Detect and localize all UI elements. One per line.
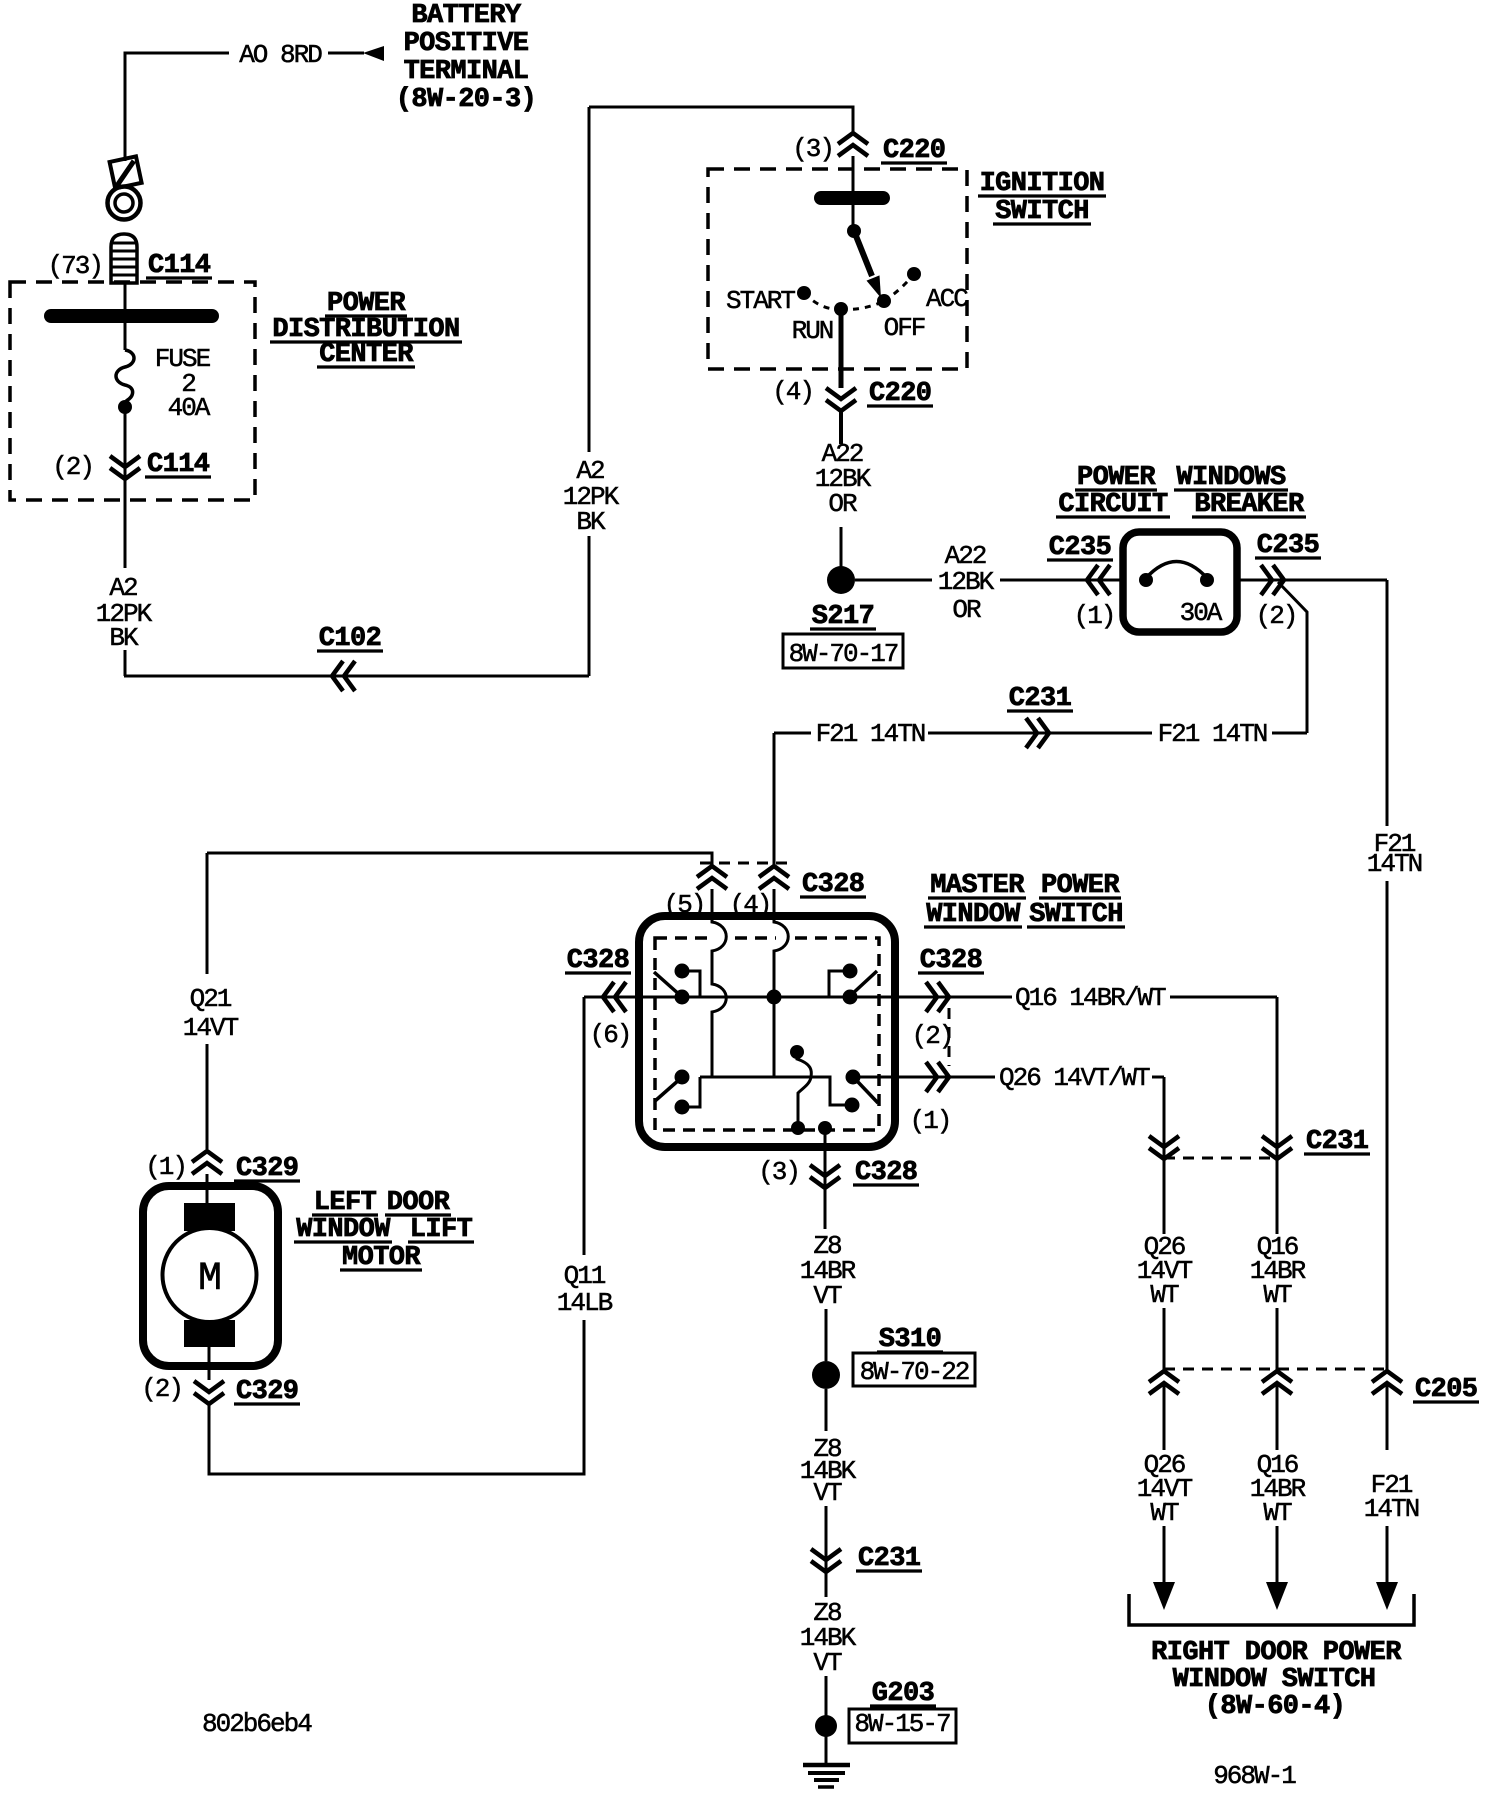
svg-text:F21 14TN: F21 14TN — [1158, 719, 1267, 749]
wire Q11 14LB return run — [209, 1320, 584, 1474]
circuit breaker 30A box — [1123, 532, 1237, 632]
wire breaker output F21 — [1237, 579, 1387, 582]
svg-text:(4): (4) — [772, 377, 813, 407]
svg-text:VT: VT — [813, 1648, 842, 1678]
connector C220 cavity 4 chevrons — [826, 388, 856, 399]
wire pin5 stub into switch — [711, 889, 714, 918]
svg-text:14LB: 14LB — [557, 1288, 613, 1318]
switch upper-left contact and wire — [675, 964, 690, 979]
svg-text:WT: WT — [1263, 1498, 1292, 1528]
connector C328 cavity 1 chevrons — [938, 1062, 949, 1092]
switch lower-left second contact and wire — [675, 1100, 690, 1115]
connector C205 chevrons on F21 — [1372, 1371, 1402, 1382]
fuse 2 40A element — [116, 350, 134, 401]
ground symbol G203 — [803, 1763, 850, 1768]
svg-text:(1): (1) — [1074, 601, 1115, 631]
connector C328 right dashed boundary — [948, 1008, 951, 1066]
switch center junction — [767, 990, 782, 1005]
svg-text:(8W-60-4): (8W-60-4) — [1205, 1692, 1345, 1722]
reference box 8W-70-22 — [853, 1353, 975, 1386]
svg-text:14TN: 14TN — [1367, 849, 1422, 879]
right door power window switch bracket — [1129, 1594, 1414, 1625]
left door window lift motor box — [143, 1186, 278, 1366]
svg-text:(2): (2) — [912, 1021, 953, 1051]
connector C205 dashed boundary — [1164, 1368, 1389, 1371]
wire F21 down right side — [1386, 580, 1389, 826]
svg-text:(2): (2) — [141, 1374, 182, 1404]
white patch under pin 5 and pin 4 crossover hops — [714, 932, 729, 944]
ignition position dashed arc — [804, 274, 914, 309]
ignition switch rotor pivot — [847, 224, 861, 238]
svg-text:POSITIVE: POSITIVE — [404, 29, 529, 59]
connector C231 chevrons on F21 — [1038, 718, 1049, 748]
wire top feed to ignition switch — [589, 107, 853, 133]
connector C231 chevrons on Q16 — [1262, 1136, 1292, 1147]
switch left row contact — [675, 990, 690, 1005]
svg-text:OR: OR — [952, 595, 981, 625]
wire F21 14TN horizontal — [774, 732, 811, 735]
wire Q26 below C205 — [1163, 1384, 1166, 1450]
motor upper brush — [184, 1203, 235, 1231]
connector C205 chevrons on Q16 — [1262, 1371, 1292, 1382]
ignition switch feed bar — [814, 191, 890, 205]
svg-text:WT: WT — [1263, 1280, 1292, 1310]
ground splice G203 — [815, 1715, 837, 1737]
svg-text:(1): (1) — [145, 1152, 186, 1182]
svg-text:968W-1: 968W-1 — [1213, 1761, 1296, 1791]
wire RUN output — [839, 309, 844, 388]
svg-text:(73): (73) — [48, 251, 102, 281]
svg-text:(2): (2) — [1256, 601, 1297, 631]
svg-text:Q21: Q21 — [190, 984, 232, 1014]
switch pin 3 contact and hop wire — [790, 1045, 804, 1059]
svg-text:(2): (2) — [52, 452, 93, 482]
off-page arrow to battery positive terminal — [363, 46, 384, 61]
switch center feed wire — [773, 997, 776, 1077]
svg-text:Q16 14BR/WT: Q16 14BR/WT — [1015, 983, 1166, 1013]
svg-text:(3): (3) — [758, 1157, 799, 1187]
wire Q16 below C205 — [1276, 1384, 1279, 1450]
svg-text:OFF: OFF — [884, 313, 925, 343]
svg-text:12BK: 12BK — [938, 567, 995, 597]
bus bar in power distribution center — [44, 309, 219, 323]
wire Q16 14BR/WT — [850, 996, 1012, 999]
wire Q26 arrow to right door switch — [1163, 1526, 1166, 1584]
connector C329 cavity 2 chevrons — [194, 1381, 224, 1392]
wire Q26 14VT/WT — [853, 1076, 995, 1079]
connector C231 chevrons on Z8 — [811, 1549, 841, 1560]
svg-text:OR: OR — [828, 489, 857, 519]
wire Q16 down to C231 — [1276, 997, 1279, 1234]
connector C328 cavity 3 chevrons — [810, 1165, 840, 1176]
wire Z8 to C231 — [825, 1506, 828, 1597]
svg-text:BK: BK — [109, 623, 139, 653]
connector C328 cavity 5 chevrons — [697, 866, 727, 877]
connector C235 cavity 1 chevrons — [1087, 565, 1098, 595]
switch pin 5 internal wire with crossover hops — [712, 918, 726, 1077]
switch pin 4 internal wire with crossover hop — [774, 918, 788, 997]
svg-text:WINDOW SWITCH: WINDOW SWITCH — [1173, 1665, 1376, 1695]
wire Z8 14BK VT below splice — [825, 1389, 828, 1431]
wire A2 horizontal run — [124, 675, 589, 678]
connector C220 cavity 3 chevrons — [838, 133, 868, 144]
splice S310 — [812, 1361, 840, 1389]
wire F21 into master switch pin 4 — [773, 733, 776, 865]
switch lower-left lever — [655, 1079, 680, 1101]
connector C231 dashed boundary — [1164, 1157, 1277, 1160]
wire into motor — [206, 1174, 209, 1205]
svg-text:(8W-20-3): (8W-20-3) — [396, 85, 536, 115]
connector C114 cavity 73 grommet symbol — [111, 234, 137, 283]
reference box 8W-15-7 — [849, 1709, 956, 1743]
wire Q16 to C205 — [1276, 1308, 1279, 1371]
svg-text:40A: 40A — [168, 393, 211, 423]
svg-text:Q26 14VT/WT: Q26 14VT/WT — [999, 1063, 1150, 1093]
svg-text:WT: WT — [1150, 1280, 1179, 1310]
wire pin4 stub into switch — [773, 889, 776, 918]
connector C114 cavity 2 chevrons — [110, 456, 140, 467]
switch lower-right inner contact — [845, 1098, 860, 1113]
motor lower brush — [184, 1320, 235, 1347]
svg-text:(1): (1) — [910, 1106, 951, 1136]
wire into ignition switch — [852, 156, 855, 229]
master power window switch box — [639, 916, 895, 1147]
wire bus bar to fuse — [124, 321, 127, 350]
svg-text:RUN: RUN — [792, 316, 833, 346]
switch upper-right contact and wire — [843, 964, 858, 979]
switch lower-right row contact — [846, 1070, 861, 1085]
svg-text:M: M — [198, 1257, 222, 1302]
svg-text:BK: BK — [576, 507, 606, 537]
switch lower row wire — [700, 1077, 845, 1105]
ignition switch rotor lever with arrowhead — [854, 231, 872, 276]
wire Q21 14VT feed from master switch pin 5 — [207, 853, 712, 865]
connector C102 chevrons — [332, 661, 343, 691]
svg-text:8W-15-7: 8W-15-7 — [854, 1709, 950, 1739]
wire from C114 into bus bar — [124, 283, 127, 311]
svg-text:30A: 30A — [1180, 598, 1223, 628]
svg-text:BATTERY: BATTERY — [411, 1, 522, 31]
wire F21 arrow to right door switch — [1386, 1526, 1389, 1584]
motor M circle — [163, 1228, 257, 1322]
wire Z8 to ground G203 — [825, 1676, 828, 1764]
junction under fuse — [118, 400, 132, 414]
wire A2 12PK BK below PDC — [124, 479, 127, 568]
connector C231 chevrons on Q26 — [1149, 1136, 1179, 1147]
svg-text:Q11: Q11 — [564, 1261, 606, 1291]
switch lower-left contact — [675, 1070, 690, 1085]
wire Z8 from switch pin 3 — [824, 1128, 827, 1229]
reference box 8W-70-17 — [783, 634, 903, 668]
wire F21 below C205 — [1386, 1384, 1389, 1450]
wire Q16 arrow to right door switch — [1276, 1526, 1279, 1584]
connector C328 cavity 2 chevrons — [938, 982, 949, 1012]
connector C205 chevrons on Q26 — [1149, 1371, 1179, 1382]
wire fuse to connector C114 cavity 2 — [124, 407, 127, 478]
ignition switch dashed box — [708, 169, 967, 369]
svg-text:(3): (3) — [792, 134, 833, 164]
svg-text:8W-70-17: 8W-70-17 — [789, 639, 898, 669]
svg-text:VT: VT — [813, 1478, 842, 1508]
wire motor return — [208, 1347, 211, 1380]
switch lower-right lever — [858, 1082, 878, 1103]
wire Q26 down to C231 — [1163, 1077, 1166, 1234]
switch right row contact — [843, 990, 858, 1005]
switch main row wire Q16 — [584, 996, 850, 999]
power distribution center dashed box — [10, 282, 255, 500]
wire Q21 14VT down to motor — [206, 853, 209, 974]
svg-text:TERMINAL: TERMINAL — [404, 57, 529, 87]
connector C328 cavity 4 chevrons — [759, 866, 789, 877]
ignition position contact RUN — [834, 302, 848, 316]
wire A0 8RD to battery positive terminal — [125, 53, 229, 161]
ignition position contact START — [797, 286, 811, 300]
wire A22 12BK OR to circuit breaker — [855, 579, 932, 582]
svg-text:AO 8RD: AO 8RD — [239, 40, 322, 70]
wire A2 12PK BK riser — [588, 536, 591, 676]
svg-text:START: START — [726, 286, 795, 316]
wire Z8 to splice S310 — [825, 1309, 828, 1361]
connector C235 cavity 2 chevrons — [1273, 565, 1284, 595]
svg-text:802b6eb4: 802b6eb4 — [202, 1709, 312, 1739]
svg-text:8W-70-22: 8W-70-22 — [860, 1357, 969, 1387]
svg-text:ACC: ACC — [926, 284, 968, 314]
switch upper-left lever — [654, 972, 681, 996]
connector C328 dashed boundary — [700, 862, 794, 865]
switch bottom boundary contacts — [791, 1121, 805, 1135]
svg-text:(6): (6) — [590, 1020, 631, 1050]
circuit breaker element — [1146, 562, 1207, 579]
wire Q26 to C205 — [1163, 1308, 1166, 1371]
connector C328 cavity 6 chevrons — [603, 982, 614, 1012]
connector C329 cavity 1 chevrons — [192, 1151, 222, 1162]
wire A22 12BK OR to splice — [839, 411, 843, 444]
splice S217 — [827, 566, 855, 594]
svg-text:14TN: 14TN — [1364, 1494, 1419, 1524]
switch upper-right lever — [851, 971, 877, 995]
svg-text:14VT: 14VT — [183, 1013, 239, 1043]
ignition position contact OFF — [877, 294, 891, 308]
master switch inner dashed box — [655, 938, 879, 1130]
wire F21 branch diagonal — [1278, 582, 1307, 733]
ignition position contact ACC — [907, 267, 921, 281]
svg-text:RIGHT DOOR POWER: RIGHT DOOR POWER — [1151, 1638, 1402, 1668]
ring terminal eyelet at battery feed — [110, 156, 142, 188]
svg-text:F21 14TN: F21 14TN — [816, 719, 925, 749]
svg-text:WT: WT — [1150, 1498, 1179, 1528]
svg-text:VT: VT — [813, 1281, 842, 1311]
